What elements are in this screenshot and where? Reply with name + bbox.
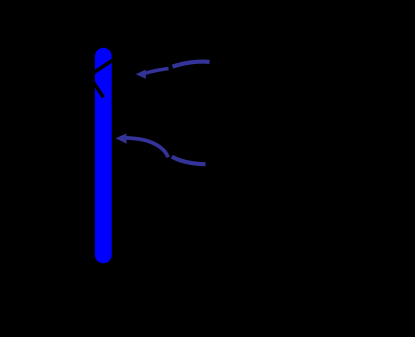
upper arrow head [136, 70, 146, 79]
upper diagonal mark on rod [93, 60, 114, 74]
upper arrow shaft right dash [173, 62, 210, 67]
upper arrow shaft left dash [145, 69, 169, 74]
lower diagonal mark on rod [94, 83, 104, 98]
upper annotation arrow [136, 62, 210, 79]
lower arrow shaft lower dash [172, 157, 206, 165]
lower arrow shaft upper dash [126, 138, 168, 158]
lower annotation arrow [116, 134, 206, 165]
blue rod [95, 48, 112, 263]
lower arrow head [116, 134, 127, 144]
